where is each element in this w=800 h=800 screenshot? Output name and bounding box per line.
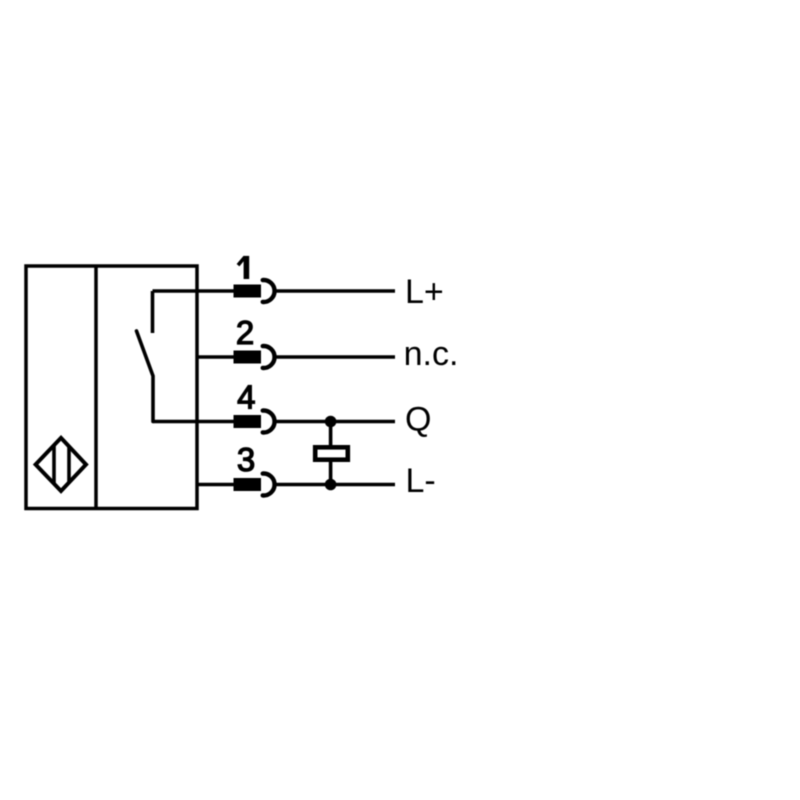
svg-text:n.c.: n.c. [404, 335, 459, 373]
pin 2 socket arc [263, 346, 275, 368]
sensor body outline [26, 266, 197, 509]
sensor body divider [94, 266, 98, 509]
svg-text:L-: L- [406, 462, 436, 500]
switch S1 blade [137, 331, 154, 422]
pin 1 contact block [234, 285, 262, 298]
wire n.c. [276, 355, 395, 359]
pin 4 socket arc [263, 411, 275, 433]
wire pin3 stub from body [197, 483, 234, 487]
wire L+ [276, 289, 395, 293]
inductive sensor symbol (diamond) [36, 438, 86, 491]
wire pin2 stub from body [197, 355, 234, 359]
wire Q [276, 420, 395, 424]
node junction on L- wire [325, 479, 337, 491]
svg-text:L+: L+ [405, 273, 444, 311]
svg-text:3: 3 [237, 441, 255, 478]
pin 1 socket arc [263, 280, 275, 302]
wire pin1 from switch to connector [153, 289, 234, 293]
pin 3 contact block [234, 478, 262, 491]
wire load bottom lead [329, 462, 333, 485]
node junction on Q wire [325, 416, 337, 428]
svg-text:4: 4 [237, 379, 255, 416]
wire pin4 from switch to connector [153, 420, 234, 424]
wire load top lead [329, 422, 333, 446]
pin 1 label [238, 256, 246, 279]
svg-text:Q: Q [405, 401, 431, 439]
switch S1 top contact stub [151, 291, 155, 333]
pin 4 contact block [234, 415, 262, 428]
svg-text:2: 2 [236, 314, 254, 351]
load resistor RL [315, 447, 348, 459]
pin 2 contact block [234, 351, 262, 364]
pin 3 socket arc [263, 473, 275, 495]
wire L- [276, 483, 395, 487]
